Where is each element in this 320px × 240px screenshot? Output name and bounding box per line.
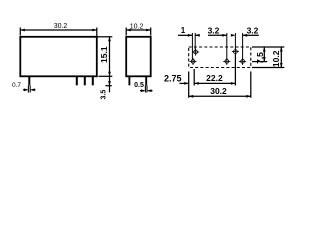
svg-text:10.2: 10.2	[271, 50, 281, 67]
svg-text:30.2: 30.2	[210, 86, 227, 96]
svg-text:2.75: 2.75	[164, 73, 182, 83]
svg-text:15.1: 15.1	[99, 46, 109, 63]
svg-text:0.7: 0.7	[12, 82, 21, 89]
svg-text:3.5: 3.5	[100, 90, 107, 100]
svg-text:3.2: 3.2	[247, 26, 259, 36]
svg-text:10.2: 10.2	[130, 23, 144, 30]
svg-text:1: 1	[181, 26, 186, 35]
svg-text:0.5: 0.5	[134, 82, 144, 89]
svg-text:7.5: 7.5	[255, 52, 265, 64]
svg-text:3.2: 3.2	[208, 25, 220, 35]
svg-text:22.2: 22.2	[206, 73, 223, 83]
svg-text:30.2: 30.2	[54, 23, 68, 30]
